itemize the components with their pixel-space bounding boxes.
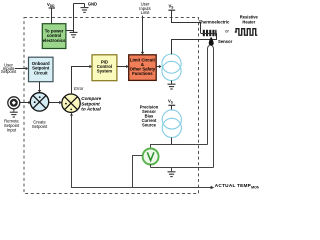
svg-text:or: or bbox=[225, 29, 229, 34]
svg-text:Functions: Functions bbox=[132, 71, 153, 76]
svg-text:Source: Source bbox=[142, 122, 157, 127]
svg-text:System: System bbox=[97, 69, 112, 74]
svg-text:Error: Error bbox=[74, 86, 84, 91]
svg-text:Setpoint: Setpoint bbox=[1, 69, 17, 74]
svg-text:Setpoint: Setpoint bbox=[32, 124, 48, 129]
svg-text:Thermoelectric: Thermoelectric bbox=[199, 20, 230, 25]
svg-text:electronics: electronics bbox=[43, 38, 66, 43]
svg-text:Compare: Compare bbox=[81, 96, 101, 101]
svg-text:GND: GND bbox=[88, 2, 97, 7]
svg-text:Heater: Heater bbox=[242, 19, 255, 24]
svg-text:Limit: Limit bbox=[141, 10, 151, 15]
svg-text:Setpoint: Setpoint bbox=[81, 101, 100, 106]
svg-text:Sensor: Sensor bbox=[218, 39, 233, 44]
svg-text:Circuit: Circuit bbox=[34, 70, 48, 75]
svg-text:to Actual: to Actual bbox=[81, 107, 101, 112]
svg-text:Input: Input bbox=[7, 127, 17, 132]
